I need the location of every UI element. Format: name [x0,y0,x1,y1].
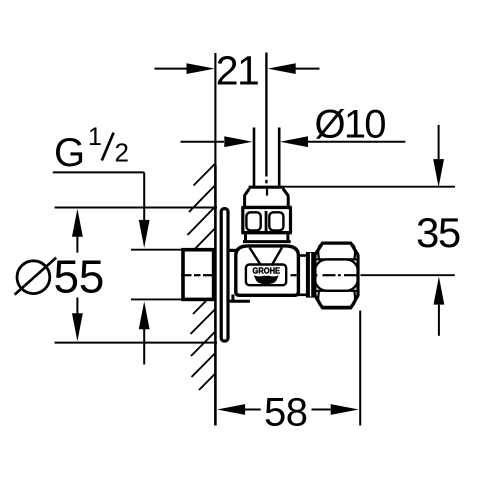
diam55 bottom extension line [55,342,217,344]
35 top extension line [284,186,455,188]
cone right slant [283,189,289,197]
riser centerline [265,53,267,177]
step ring bottom edge [243,240,291,243]
svg-text:Ø10: Ø10 [315,103,386,147]
GROHE lip logo [254,275,279,284]
wall surface line [214,53,216,165]
funnel V line left [250,248,261,264]
G1/2 leader horizontal [53,171,144,173]
svg-text:58: 58 [264,391,308,435]
right nut barrel face [315,259,358,290]
svg-text:G: G [54,131,85,175]
G1/2 lower up arrow [139,301,150,329]
G1/2 leader vertical with down arrow [143,172,145,220]
diam55 top extension line [55,207,217,209]
hex nut left side [241,207,244,232]
riser pipe left edge [253,128,256,188]
right nut octagon [315,243,358,308]
diam55 text: circle [17,261,50,294]
inlet stub top bar [227,249,238,252]
diam55 dim line lower segment with down arrow [76,298,78,314]
right nut top face inset [318,243,355,259]
compression cone top edge [249,186,284,189]
dimension 58 right extension line [359,311,361,426]
dimension diam10 dim line left arrow [181,141,225,143]
cone left slant [244,189,249,197]
svg-text:55: 55 [54,251,105,303]
step ring right side [286,234,289,240]
hex nut facet divider [265,211,268,231]
svg-text:21: 21 [216,47,259,93]
wall hatching [188,163,216,390]
riser pipe right edge [278,128,281,188]
diam55 dim line upper segment with up arrow [72,209,83,237]
dimension 21 right arrow [295,68,320,70]
svg-text:35: 35 [416,209,460,256]
upper fitting band right side [287,196,290,207]
svg-text:1: 1 [88,123,102,151]
centerline dashes across right nut [315,274,357,276]
hex nut bottom edge [241,231,291,234]
diam55 text: slash [15,258,57,295]
svg-text:GROHE: GROHE [253,266,281,275]
hex nut left facet [246,212,260,230]
hex nut right side [289,207,292,232]
G1/2 inlet nipple thin extension lines [131,249,183,251]
escutcheon wall plate [221,209,228,341]
hex nut right facet [269,212,283,230]
step ring left side [244,234,247,240]
outlet stub bottom edge [299,293,307,296]
right nut bottom face inset [318,291,355,307]
cone seam [266,189,268,196]
valve body [236,246,299,295]
upper fitting band left side [243,196,246,207]
compression ring [306,252,315,298]
body skirt connector [231,295,234,302]
svg-text:2: 2 [115,137,129,167]
dimension 21 left arrow [155,68,189,70]
dimension diam10 right arrow [308,141,405,143]
hex nut flange [241,206,291,209]
dimension 58 right arrow [312,409,331,411]
dimension 58 dim line left arrow [217,404,245,415]
outlet stub top edge [299,254,307,257]
G1/2 inlet nipple [183,250,214,300]
dimension 35 lower up arrow [434,277,445,305]
centerline horizontal dashes left part [181,274,297,276]
right nut bottom face line [315,290,358,292]
centerline solid extension right [361,274,455,276]
dimension 35 upper down arrow [438,125,440,160]
right nut top face line [315,258,358,260]
funnel V line right [273,248,283,264]
inlet stub bottom bar [228,300,251,303]
GROHE logo plate [246,265,286,286]
